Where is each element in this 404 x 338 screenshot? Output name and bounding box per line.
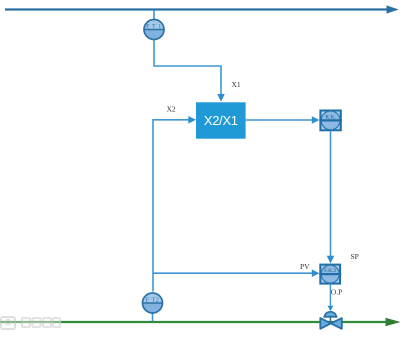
wire ratio controller to flow controller (SP): [327, 132, 335, 264]
wire divider output to ratio controller: [246, 116, 320, 124]
ratio controller R.K (shared display instrument): [319, 111, 341, 131]
svg-text:PV: PV: [300, 262, 310, 271]
wire PV from trunk to flow controller: [153, 269, 319, 277]
process flow line 2 (bottom stream, green): [0, 318, 401, 327]
flow controller FIC2 (shared display instrument): [319, 265, 341, 284]
svg-text:R.K.: R.K.: [325, 114, 336, 120]
control valve body: [320, 318, 342, 329]
svg-text:F.K.2: F.K.2: [324, 268, 336, 274]
process flow line 1 (top stream): [5, 5, 399, 13]
flow transmitter FT2: [143, 293, 163, 322]
wire FT1 tap from top line: [153, 10, 155, 20]
svg-text:O.P: O.P: [331, 288, 342, 297]
wire FT1 to divider (down, right, down): [154, 40, 225, 102]
wire controller output to valve actuator: [328, 285, 334, 312]
svg-text:X2: X2: [167, 105, 176, 114]
control valve actuator: [323, 312, 337, 324]
flow transmitter FT1: [144, 20, 164, 40]
svg-text:X2/X1: X2/X1: [204, 113, 238, 128]
svg-text:F T 1: F T 1: [146, 24, 162, 30]
svg-text:SP: SP: [351, 252, 359, 261]
watermark (bottom-left, faint): [0, 316, 61, 330]
wire X2 branch (vertical trunk + arrow into divider): [153, 116, 196, 292]
svg-text:X1: X1: [232, 80, 241, 89]
divider block X2/X1: [196, 102, 246, 138]
svg-text:F T2: F T2: [146, 297, 160, 303]
